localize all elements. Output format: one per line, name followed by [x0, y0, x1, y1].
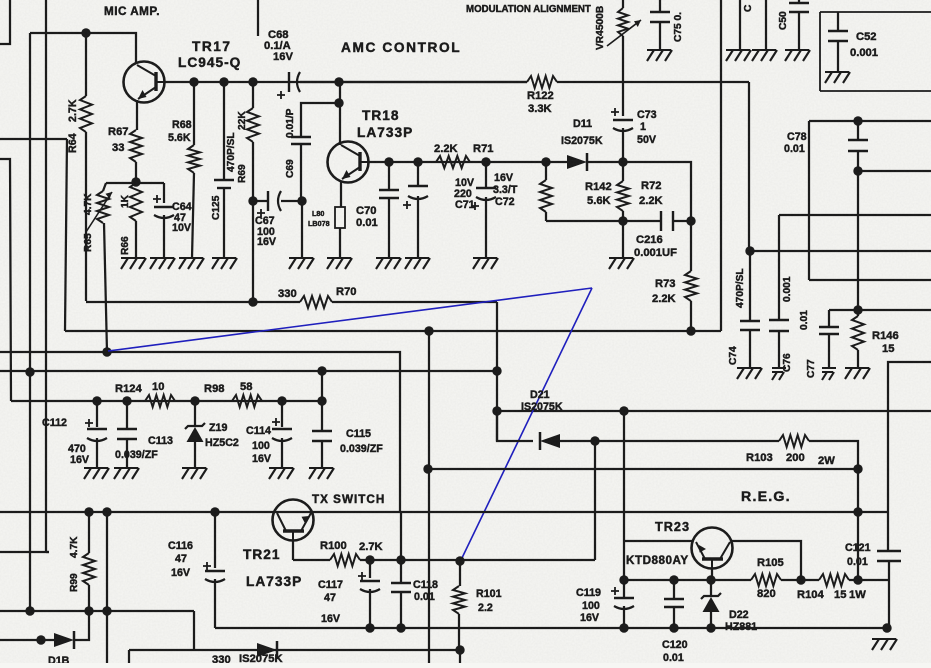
wire TR17 collector row (y=82) — [165, 81, 527, 83]
wire row y=251 — [750, 250, 931, 252]
wire row y=580 — [624, 579, 751, 581]
blue pen line 1 — [108, 288, 592, 351]
node y580/x624 — [619, 575, 628, 584]
capacitor C64 47/10V — [153, 183, 174, 258]
label TR17 — [192, 39, 231, 54]
capacitor C70 0.01 — [379, 162, 399, 258]
ground C112 — [84, 468, 109, 479]
ground C72 — [473, 258, 498, 269]
label C71 220 10V — [454, 177, 475, 211]
label KTD880AY — [626, 554, 689, 567]
resistor R68 (5.6K) — [188, 82, 200, 258]
label 0.001 C76 — [782, 276, 793, 302]
capacitor C71 220/10V — [403, 162, 428, 258]
wire vertical x=66 to AGC row — [65, 139, 67, 331]
label R73 2.2K — [652, 278, 676, 305]
node R71/C72 — [481, 157, 490, 166]
wire to TR17 base — [86, 33, 136, 62]
label C114 100 16V — [246, 425, 272, 465]
label C67 — [255, 215, 277, 248]
label C117 47 16V — [318, 579, 343, 625]
node 0.01P branch — [334, 98, 343, 107]
node C117 top — [365, 555, 374, 564]
wire vertical bus A (x=30) — [29, 33, 31, 611]
label C116 47 16V — [168, 540, 193, 579]
wire top-left bracket — [0, 0, 10, 44]
node C71 top — [413, 157, 422, 166]
node C112 top — [92, 396, 101, 405]
label C69 — [285, 159, 296, 178]
wire row y=640 D18 — [0, 639, 55, 641]
node C216 right — [686, 216, 695, 225]
wire row y=471 — [428, 468, 858, 470]
label TR23 — [655, 520, 690, 534]
node C115 mid — [317, 396, 326, 405]
node C78 bottom — [853, 166, 862, 175]
label C73 1 50V — [637, 109, 657, 146]
node R69 top — [248, 77, 257, 86]
resistor R98 58 — [232, 395, 262, 407]
capacitor C78 0.01 — [848, 121, 868, 171]
wire rail y=628 — [215, 627, 887, 629]
resistor R64 (2.7K) — [80, 33, 92, 301]
node C118 top — [396, 555, 405, 564]
blue pen line 2 — [461, 288, 592, 560]
label C52 0.001 — [850, 31, 878, 59]
node D22 bottom — [706, 623, 715, 632]
label C115 — [340, 428, 383, 455]
label D21 — [530, 389, 550, 401]
ground C70 — [376, 258, 401, 269]
label Z19 HZ5C2 — [205, 422, 239, 449]
wire TR23 emitter — [711, 568, 713, 580]
zener Z19 HZ5C2 — [185, 401, 205, 468]
label C68 0.1/A 16V — [264, 29, 293, 63]
node y411/x497 — [492, 406, 501, 415]
node R68 top — [189, 77, 198, 86]
node C125 top — [219, 77, 228, 86]
node R101 top — [455, 556, 464, 565]
capacitor C118 0.01 — [391, 512, 411, 628]
node y580/x858 — [853, 575, 862, 584]
capacitor C113 0.039/ZF — [117, 401, 137, 468]
capacitor C116 47/16V — [203, 512, 225, 628]
transistor TR18 — [328, 142, 370, 183]
node R73 bottom — [686, 326, 695, 335]
wire row y=552 — [0, 551, 49, 553]
diode D21 IS2075K — [497, 411, 779, 450]
ground C50 — [785, 50, 810, 61]
transistor TR17 — [124, 62, 166, 103]
resistor R69 (22K) — [247, 82, 259, 201]
ground C64 — [150, 258, 175, 269]
label C70 0.01 — [356, 205, 378, 229]
node x721/y82 — [0, 0, 1, 1]
label D18 — [48, 655, 70, 667]
capacitor C74 470P/SL — [740, 251, 760, 368]
label R69 — [237, 164, 248, 183]
node y371 end — [492, 366, 501, 375]
resistor R103 200 2W — [779, 435, 858, 469]
resistor R73 2.2K — [685, 221, 697, 331]
wire R67 bottom — [135, 162, 137, 182]
node D21 cathode — [590, 436, 599, 445]
wire cap lead x=766 — [765, 0, 767, 50]
ground C77 — [822, 368, 836, 380]
node y650/x460 — [455, 645, 464, 654]
node C118 bottom — [396, 623, 405, 632]
wire TR23 base — [624, 540, 692, 542]
resistor R70 330 — [86, 296, 497, 308]
ground main — [872, 639, 897, 650]
label R98 58 — [204, 381, 252, 395]
node R70/R69net — [248, 297, 257, 306]
label R67 33 — [108, 126, 129, 154]
label LA733P TR21 — [246, 574, 302, 589]
wire row y=310 — [829, 309, 931, 311]
label LC945-Q — [178, 55, 241, 70]
ground C52 — [825, 72, 850, 83]
label 2.2K R71 — [434, 143, 494, 155]
trimmer R65 (4.7K) — [86, 183, 112, 352]
label C76 — [782, 353, 793, 372]
ground C69 — [289, 258, 314, 269]
capacitor C120 0.01 — [664, 580, 684, 628]
wire bottom box — [129, 650, 460, 663]
wire x=858 to REG rail — [857, 469, 859, 580]
ground C75 — [647, 50, 672, 61]
wire R69net riser — [252, 201, 254, 302]
label R105 820 — [757, 557, 784, 600]
ground C113 — [114, 468, 139, 479]
wire x=809 vertical — [808, 121, 810, 280]
node D22 top — [706, 575, 715, 584]
ground x=740 — [726, 50, 751, 61]
node y611/x30 — [25, 606, 34, 615]
label R100 2.7K — [320, 540, 383, 553]
wire R72 ground lead — [622, 221, 624, 258]
resistor R124 10 — [145, 395, 175, 407]
resistor R100 2.7K — [293, 554, 595, 566]
wire x=107 drop — [106, 512, 108, 663]
wire TR18 top lead — [339, 82, 341, 145]
label TX SWITCH — [312, 493, 385, 506]
label 330 — [278, 288, 297, 300]
node y411/x624 — [619, 406, 628, 415]
resistor R67 — [130, 130, 142, 162]
node C78 top — [853, 116, 862, 125]
node C115 top — [317, 366, 326, 375]
ground R68 — [179, 258, 204, 269]
transistor TR23 — [692, 528, 733, 569]
wire left stub row y=139 — [0, 138, 67, 140]
resistor R142 5.6K — [540, 162, 552, 221]
label 0.01 C77 — [799, 310, 810, 330]
wire corner x=194 — [193, 611, 195, 650]
node x858/y512 — [853, 507, 862, 516]
wire rail y=512 — [0, 511, 889, 513]
resistor R104 15 1W — [819, 574, 889, 586]
label C74 — [728, 346, 739, 365]
ground C114 — [269, 468, 294, 479]
capacitor C72 3.3/T — [471, 162, 496, 258]
label R124 10 — [115, 381, 164, 395]
label MIC AMP. — [104, 5, 160, 18]
node y471 right — [853, 464, 862, 473]
label C75 — [673, 12, 684, 42]
label C120 0.01 — [662, 639, 688, 664]
label AMC CONTROL — [341, 40, 461, 55]
wire MIC AMP supply row (y=33) — [30, 32, 86, 34]
node Z19 top — [190, 396, 199, 405]
wire y82 corner to C74 node — [748, 82, 750, 251]
label 0.01/P — [285, 108, 296, 138]
capacitor C117 47/16V — [358, 560, 380, 628]
resistor R71 2.2K — [436, 156, 470, 168]
node C114 top — [277, 396, 286, 405]
node supply/R64 junction — [81, 28, 90, 37]
label D22 HZ881 — [725, 609, 757, 633]
node R67/R66 junction — [131, 177, 140, 186]
capacitor C69 0.01/P — [291, 137, 311, 201]
capacitor C50 — [789, 0, 809, 50]
wire x=624 drop — [623, 411, 625, 598]
label 4.7K R65 — [83, 193, 94, 252]
resistor R99 4.7K — [83, 512, 95, 611]
resistor R146 15 — [852, 310, 864, 368]
diode D11 IS2075K — [566, 153, 623, 171]
wire x=428 riser — [0, 0, 1, 1]
resistor R122 3.3K — [339, 76, 749, 88]
wire C69 to ground — [301, 201, 303, 258]
capacitor C119 100/16V — [611, 587, 634, 628]
wire bias row y=183 — [106, 182, 164, 184]
label 2.7K R64 — [67, 99, 79, 153]
diode D18 — [54, 611, 89, 649]
label bottom 330 — [212, 654, 231, 666]
capacitor C114 100/16V — [272, 401, 292, 468]
capacitor C125 470P/SL — [214, 82, 234, 258]
label MODULATION ALIGNMENT — [466, 4, 591, 15]
label L80 LB078 — [308, 209, 330, 228]
label C50 — [778, 11, 789, 30]
ground R66 — [121, 258, 146, 269]
wire vertical x=721 — [720, 0, 722, 331]
capacitor C52 0.001 — [828, 12, 848, 72]
wire R142 bottom row — [546, 220, 623, 222]
wire row y=171 — [858, 170, 931, 172]
node R99 top — [84, 507, 93, 516]
label R70 — [336, 286, 357, 298]
label C49 — [743, 4, 754, 12]
ground R72 — [609, 258, 634, 269]
node x107 top — [102, 507, 111, 516]
label 1K R66 — [120, 194, 131, 255]
node R72 bottom — [618, 216, 627, 225]
node D11 out — [618, 157, 627, 166]
capacitor C76 0.001 — [769, 215, 789, 368]
wire TR18 emitter row (y=162) — [369, 161, 566, 163]
label C78 0.01 — [784, 131, 807, 155]
wire vertical bus B (x=46) — [45, 0, 47, 552]
label C112 — [42, 417, 67, 429]
label TR18 — [362, 108, 399, 123]
label C118 0.01 — [413, 579, 438, 603]
capacitor C75 — [650, 0, 670, 50]
wire y560 corner up — [594, 441, 596, 560]
label 470 16V — [68, 443, 90, 466]
label R72 2.2K — [639, 180, 663, 207]
label R101 2.2 — [476, 588, 502, 614]
resistor R105 820 — [751, 574, 781, 586]
node y611/x107 — [102, 606, 111, 615]
label R146 15 — [872, 330, 899, 355]
node C67/C69 junction — [297, 196, 306, 205]
wire x=497 vertical — [496, 302, 498, 441]
wire row y=362 corner — [888, 362, 931, 551]
node TR18 top — [334, 77, 343, 86]
transistor TR21 — [273, 500, 314, 541]
wire row y=371 — [0, 370, 497, 372]
ground Z19 — [182, 468, 207, 479]
label C119 100 16V — [576, 587, 601, 624]
node D18 anode — [36, 635, 45, 644]
resistor R66 (1K) — [130, 183, 142, 258]
wire row y=401 — [0, 159, 322, 401]
wire row y=121 — [809, 120, 931, 122]
wire x=429 vertical — [428, 331, 430, 663]
node C74 top — [745, 246, 754, 255]
label TR21 — [243, 547, 280, 562]
ground C76 — [772, 368, 786, 380]
wire x=858 mid — [857, 171, 859, 310]
wire x=889 lower — [888, 561, 890, 628]
wire TR17 emitter — [136, 100, 137, 130]
label C125 — [211, 195, 222, 220]
wire top stub x=258 — [257, 0, 259, 36]
label LA733P — [357, 125, 413, 140]
label R68 5.6K — [168, 119, 192, 144]
node y611/x89 — [84, 606, 93, 615]
label C121 0.01 — [845, 542, 871, 568]
capacitor C67 100/16V — [253, 191, 302, 217]
wire D11 node corner — [623, 162, 691, 221]
resistor R72 2.2K — [617, 162, 629, 221]
ground L80 — [327, 258, 352, 269]
node R65 wiper bottom — [102, 347, 111, 356]
label R104 15 1W — [797, 589, 866, 601]
capacitor C73 1/50V — [611, 108, 633, 162]
capacitor C121 0.01 — [877, 551, 901, 561]
wire row y=215 — [779, 214, 931, 216]
node C119 bottom — [619, 623, 628, 632]
label C216 0.001UF — [634, 234, 677, 259]
label R142 5.6K — [585, 181, 612, 207]
label R99 4.7K — [69, 536, 80, 592]
node C70 top — [384, 157, 393, 166]
wire cap lead x=740 — [739, 0, 741, 50]
wire TR23 collector — [732, 541, 801, 580]
node C113 top — [122, 396, 131, 405]
label D11 — [573, 118, 592, 130]
ground C74 — [737, 368, 762, 379]
ground x=766 — [752, 50, 777, 61]
wire x=460 stub — [459, 650, 461, 663]
ground C115 — [309, 468, 334, 479]
wire row y=280 — [809, 279, 931, 281]
node y371/x30 — [25, 367, 34, 376]
node R142 top — [541, 157, 550, 166]
ground R146 — [845, 368, 870, 379]
zener D22 HZ881 — [701, 580, 721, 628]
potentiometer VR4500B — [607, 0, 641, 116]
wire R105-R104 — [781, 579, 819, 581]
node C120 bottom — [669, 623, 678, 632]
label IS2075K — [561, 135, 603, 147]
node ground node y628 — [882, 623, 891, 632]
node C116 top — [210, 507, 219, 516]
label VR4500B — [595, 6, 606, 50]
wire row y=411 — [497, 410, 931, 412]
label C77 — [806, 359, 817, 378]
ground C125 — [212, 258, 237, 269]
capacitor C112 470/16V — [85, 401, 107, 468]
node x429 top — [424, 326, 433, 335]
capacitor C115 0.039/ZF — [312, 371, 332, 468]
label R122 3.3K — [527, 90, 554, 115]
capacitor C77 0.01 — [819, 310, 839, 368]
wire TR21 emitter — [292, 540, 294, 560]
wire row y=611 — [0, 610, 194, 612]
label R103 200 2W — [746, 452, 835, 467]
node y580/x801 — [796, 575, 805, 584]
diode D21b IS2075K — [257, 641, 277, 659]
capacitor C216 0.001UF — [623, 211, 691, 231]
wire row y=352 — [0, 352, 400, 512]
label R.E.G. — [741, 489, 791, 505]
node C120 top — [669, 575, 678, 584]
node C117 bottom — [365, 623, 374, 632]
wire C68 to TR18 node — [300, 81, 339, 83]
label 470P/SL C74 — [735, 268, 746, 308]
node R69/C67 junction — [248, 196, 257, 205]
label bottom IS2075K — [239, 653, 283, 665]
node R146 top — [853, 305, 862, 314]
inductor L80 — [335, 181, 345, 258]
label C72 16V 3.3/T — [493, 172, 518, 208]
label IS2075K D21 — [521, 401, 563, 413]
wire branch to C69 chain — [301, 103, 339, 137]
enclosure box top right — [820, 12, 931, 91]
label 22K — [237, 111, 248, 130]
label C113 — [115, 435, 173, 461]
capacitor C68 0.1/A — [277, 72, 300, 99]
label 470P/SL — [226, 132, 237, 172]
resistor R101 2.2 — [453, 561, 465, 649]
wire row y=331 — [65, 330, 721, 332]
ground C71 — [405, 258, 430, 269]
label C64 — [172, 201, 192, 234]
node y471 left — [423, 464, 432, 473]
